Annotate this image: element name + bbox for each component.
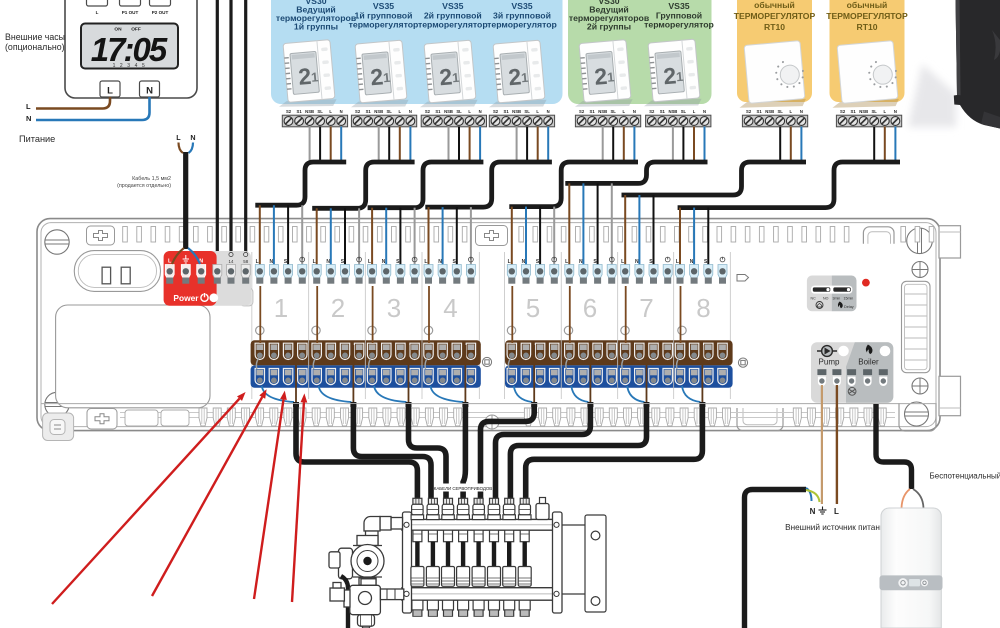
zone 7 output wiring: [626, 286, 647, 407]
manifold mount bracket right: [585, 515, 606, 612]
screw right lower: [912, 378, 928, 394]
servo cable zone 6: [496, 404, 591, 499]
svg-text:VS35: VS35: [373, 1, 394, 11]
zone 3 output wiring: [373, 286, 409, 407]
svg-text:L: L: [508, 259, 511, 265]
bus wire 3: [244, 0, 247, 269]
svg-text:S1: S1: [660, 109, 666, 114]
svg-text:NSB: NSB: [512, 109, 521, 114]
svg-text:NO: NO: [823, 297, 829, 301]
svg-text:S1: S1: [757, 109, 763, 114]
svg-text:Pump: Pump: [819, 358, 840, 367]
air vent: [536, 504, 549, 520]
manifold supply elbow: [364, 517, 403, 546]
thermostat terminal block 4: [489, 109, 554, 127]
bottom-right bracket: [899, 403, 936, 431]
actuator 6 and valve column: [488, 498, 501, 616]
thermostat terminal block 3: [421, 109, 486, 127]
svg-text:P1 OUT: P1 OUT: [122, 10, 139, 15]
zone numbers 1-8: [274, 293, 711, 323]
svg-text:N: N: [579, 259, 583, 265]
zone 5 thermostat wires: [512, 207, 554, 271]
svg-text:1: 1: [310, 69, 319, 85]
cable sheath cascade 7: [622, 162, 807, 195]
svg-text:L: L: [834, 507, 839, 516]
svg-text:NSB: NSB: [305, 109, 314, 114]
actuator 5 and valve column: [472, 498, 485, 616]
zone separator lines: [252, 252, 731, 399]
separator hairlines over strips: [309, 340, 674, 388]
thermostat VS device #5: [570, 39, 634, 110]
power cable tails: [172, 248, 184, 264]
thermostat terminal block 8: [836, 109, 901, 127]
svg-text:N: N: [703, 109, 706, 114]
svg-text:2й группы: 2й группы: [587, 22, 631, 32]
servo cable zone 2: [353, 404, 431, 499]
servo cable zone 3: [409, 404, 447, 499]
svg-text:L: L: [313, 259, 316, 265]
svg-text:N: N: [479, 109, 482, 114]
svg-text:1: 1: [274, 293, 288, 323]
thermostat cable wires block 8: [874, 127, 895, 163]
bottom-left wall tab: [43, 413, 74, 441]
svg-text:5: 5: [526, 293, 540, 323]
thermostat cable wires block 5: [603, 127, 635, 163]
DIP switch panel: [807, 276, 857, 312]
svg-text:2: 2: [331, 293, 345, 323]
svg-text:L: L: [96, 10, 99, 15]
zone 2 upper terminals: [312, 257, 363, 284]
actuator 1 and valve column: [411, 498, 424, 616]
svg-text:7: 7: [639, 293, 653, 323]
actuator 8 and valve column: [518, 498, 531, 616]
svg-text:1й группы: 1й группы: [294, 22, 338, 32]
svg-text:L: L: [329, 109, 332, 114]
svg-text:NSB: NSB: [859, 109, 868, 114]
manifold left end plate: [403, 512, 412, 613]
servo cable stub zone 6: [587, 402, 593, 407]
svg-text:NSB: NSB: [374, 109, 383, 114]
gray aux terminal block: [200, 251, 251, 306]
svg-text:L: L: [256, 259, 259, 265]
zone 7 upper terminals: [621, 257, 673, 284]
svg-text:ТЕРМОРЕГУЛЯТОР: ТЕРМОРЕГУЛЯТОР: [734, 11, 816, 21]
manifold supply bar: [402, 519, 560, 530]
red arrow 1: [52, 399, 240, 604]
svg-text:N: N: [409, 109, 412, 114]
corner screw top-left: [45, 230, 69, 254]
servo cable zone 8: [526, 404, 703, 499]
svg-text:S2: S2: [840, 109, 846, 114]
svg-text:1: 1: [451, 70, 460, 86]
svg-text:S2: S2: [649, 109, 655, 114]
svg-text:S1: S1: [366, 109, 372, 114]
svg-text:VS35: VS35: [442, 1, 463, 11]
zone 2 thermostat wires: [317, 208, 359, 271]
svg-text:L: L: [368, 259, 371, 265]
svg-text:N: N: [269, 259, 273, 265]
lock icon right of strip 2: [738, 358, 747, 367]
cable sheath cascade 4: [425, 162, 552, 207]
corner screw bottom-left: [45, 392, 69, 416]
zone 3 thermostat wires: [372, 208, 415, 271]
zone 2 output wiring: [317, 286, 353, 407]
svg-text:L: L: [884, 109, 887, 114]
clock LCD: [81, 24, 178, 69]
tag icon right of zone 8: [737, 275, 749, 282]
svg-text:S1: S1: [504, 109, 510, 114]
svg-text:S2: S2: [493, 109, 499, 114]
thermostat VS device #3: [415, 40, 479, 111]
power cable stub N blue: [189, 143, 194, 154]
manifold return bar: [402, 588, 560, 601]
svg-text:SL: SL: [778, 109, 784, 114]
svg-text:L: L: [621, 259, 624, 265]
svg-text:6: 6: [583, 293, 597, 323]
svg-text:L: L: [623, 109, 626, 114]
controller outer case: [37, 219, 940, 431]
thermostat terminal block 1: [282, 109, 347, 127]
screw right upper: [912, 262, 928, 278]
actuator terminal strip blue x=505: [505, 365, 733, 387]
servo cable stub zone 1: [293, 402, 299, 407]
svg-text:S1: S1: [297, 109, 303, 114]
svg-text:Внешние часы: Внешние часы: [5, 32, 65, 42]
thermostat VS device #2: [346, 40, 410, 111]
servo cable stub zone 4: [462, 402, 468, 407]
svg-text:Delay: Delay: [844, 305, 854, 309]
svg-text:SL: SL: [317, 109, 323, 114]
actuator terminal strip brown x=505: [505, 340, 733, 365]
zone 1 thermostat wires: [260, 205, 302, 271]
handle bracket top-right: [863, 227, 894, 244]
svg-text:4: 4: [443, 293, 457, 323]
actuator terminal strip blue x=250: [251, 365, 481, 387]
svg-text:NSB: NSB: [598, 109, 607, 114]
svg-text:L: L: [107, 86, 113, 97]
svg-text:N: N: [26, 114, 31, 123]
svg-text:Power: Power: [173, 293, 199, 303]
zone 6 thermostat wires: [569, 183, 612, 271]
clock terminal L: [100, 81, 120, 97]
svg-text:S1: S1: [435, 109, 441, 114]
zone 8 thermostat wires: [680, 208, 708, 271]
servo cable zone 7: [510, 404, 646, 499]
manifold right end plate: [553, 512, 563, 613]
svg-text:N: N: [438, 259, 442, 265]
mount bracket top-center: [476, 226, 508, 246]
svg-text:(опционально): (опционально): [5, 42, 65, 52]
servo cable stub zone 3: [406, 402, 412, 407]
svg-text:VS35: VS35: [511, 1, 532, 11]
vent slot: [74, 251, 160, 292]
thermostat VS device #6: [639, 39, 703, 110]
svg-text:N: N: [146, 86, 153, 97]
svg-text:SL: SL: [524, 109, 530, 114]
external power cable: [745, 490, 807, 628]
svg-text:S2: S2: [579, 109, 585, 114]
actuator terminal strip brown x=250: [251, 340, 481, 365]
svg-text:терморегулятор: терморегулятор: [418, 20, 488, 30]
pump wire 1 tan: [821, 385, 823, 504]
zone 6 upper terminals: [565, 257, 616, 284]
svg-text:N: N: [810, 507, 816, 516]
svg-text:1 2 3 4 5: 1 2 3 4 5: [113, 63, 147, 69]
svg-text:N: N: [190, 133, 195, 142]
svg-text:P2 OUT: P2 OUT: [152, 10, 169, 15]
thermostat VS device #4: [484, 40, 548, 111]
svg-text:3min: 3min: [833, 297, 841, 301]
bus wire 2: [229, 0, 232, 269]
svg-text:N: N: [633, 109, 636, 114]
power terminals L PE N: [165, 265, 174, 279]
svg-text:SL: SL: [456, 109, 462, 114]
top rail notches: [123, 227, 934, 243]
thermostat terminal block 2: [351, 109, 416, 127]
cable sheath cascade 3: [368, 162, 484, 208]
svg-text:терморегулятор: терморегулятор: [644, 20, 714, 30]
actuator 2 and valve column: [426, 498, 439, 616]
svg-text:Кабель 1,5 мм2: Кабель 1,5 мм2: [132, 176, 171, 182]
svg-text:NSB: NSB: [765, 109, 774, 114]
thermostat RT10 device #1: [734, 41, 807, 112]
svg-text:58: 58: [243, 259, 248, 264]
thermostat cable wires block 7: [780, 127, 801, 163]
zone 4 thermostat wires: [429, 207, 471, 271]
green thermostat panel: [568, 0, 712, 104]
zone 1 output wiring: [260, 286, 296, 407]
svg-text:L: L: [399, 109, 402, 114]
svg-text:SL: SL: [681, 109, 687, 114]
svg-text:терморегулятор: терморегулятор: [487, 20, 557, 30]
svg-text:1: 1: [675, 69, 684, 85]
svg-text:1: 1: [520, 70, 529, 86]
thermostat VS device #1: [274, 39, 338, 110]
label servo cables: [436, 484, 490, 492]
thermostat terminal block 5: [575, 109, 640, 127]
svg-text:SL: SL: [387, 109, 393, 114]
red arrow 2: [152, 397, 262, 596]
power cable sheath: [183, 152, 188, 249]
svg-text:N: N: [547, 109, 550, 114]
svg-text:L: L: [790, 109, 793, 114]
svg-text:Беспотенциальный контакт: Беспотенциальный контакт: [930, 472, 1000, 481]
svg-text:S1: S1: [851, 109, 857, 114]
svg-text:15min: 15min: [844, 297, 854, 301]
svg-text:SL: SL: [872, 109, 878, 114]
zone 4 upper terminals: [424, 257, 475, 284]
svg-text:14: 14: [229, 259, 234, 264]
svg-text:обычный: обычный: [754, 0, 795, 10]
thermostat cable wires block 3: [449, 127, 481, 163]
red arrow 4: [292, 402, 304, 602]
svg-text:1: 1: [382, 70, 391, 86]
svg-text:N: N: [326, 259, 330, 265]
svg-text:RT10: RT10: [764, 22, 785, 32]
svg-text:N: N: [690, 259, 694, 265]
svg-text:S2: S2: [425, 109, 431, 114]
svg-text:1: 1: [606, 69, 615, 85]
svg-text:N: N: [894, 109, 897, 114]
svg-text:Питание: Питание: [19, 134, 55, 144]
svg-text:N: N: [340, 109, 343, 114]
zone 3 upper terminals: [368, 257, 420, 284]
svg-text:S2: S2: [746, 109, 752, 114]
wire PE green-yellow stub: [806, 490, 820, 502]
svg-text:L: L: [26, 102, 31, 111]
thermostat cable wires block 1: [310, 127, 342, 163]
svg-text:терморегулятор: терморегулятор: [349, 20, 419, 30]
corner screw bottom-right: [905, 402, 929, 426]
wire N blue stub: [806, 488, 812, 501]
boiler wire gray: [913, 489, 924, 508]
svg-text:SL: SL: [611, 109, 617, 114]
thermostat RT10 device #2: [827, 41, 900, 112]
svg-text:N: N: [522, 259, 526, 265]
circulation pump: [329, 536, 384, 586]
small gray tab left of zone 1: [240, 288, 253, 306]
blue thermostat panel: [271, 0, 563, 104]
svg-text:NSB: NSB: [668, 109, 677, 114]
left inner panel: [56, 305, 210, 408]
svg-text:L: L: [424, 259, 427, 265]
servo cable stub zone 8: [699, 402, 705, 407]
zone 5 output wiring: [512, 286, 534, 407]
external clock unit: [65, 0, 197, 98]
bottom center bracket screw: [485, 415, 499, 429]
svg-text:NC: NC: [811, 297, 817, 301]
svg-text:КАБЕЛИ СЕРВОПРИВОДОВ: КАБЕЛИ СЕРВОПРИВОДОВ: [434, 486, 493, 491]
red arrow 3: [254, 400, 284, 600]
thermostat terminal block 7: [742, 109, 807, 127]
servo cable zone 1: [296, 404, 417, 499]
actuator 7 and valve column: [503, 498, 516, 616]
mixing valve assembly: [330, 579, 404, 628]
orange thermostat panel RT10 #2: [830, 0, 905, 102]
svg-text:Внешний источник питания: Внешний источник питания: [785, 523, 889, 532]
boiler cable: [876, 404, 912, 489]
svg-text:3: 3: [387, 293, 401, 323]
pump icon: [817, 350, 837, 352]
thermostat cable wires block 6: [673, 127, 705, 163]
svg-text:(продается отдельно): (продается отдельно): [117, 183, 171, 189]
clock terminal N: [140, 81, 160, 97]
actuator 4 and valve column: [457, 498, 470, 616]
mount bracket bottom-left: [87, 409, 117, 430]
svg-text:RT10: RT10: [856, 22, 877, 32]
orange thermostat panel RT10 #1: [737, 0, 812, 102]
clock wire L brown: [36, 97, 110, 109]
svg-text:L: L: [176, 133, 181, 142]
servo cable stub zone 5: [531, 402, 537, 407]
svg-text:S2: S2: [286, 109, 292, 114]
power cable stub L brown: [179, 143, 184, 154]
pump-boiler panel: [811, 342, 893, 402]
pump power cord: [341, 576, 348, 628]
zone 8 upper terminals: [676, 257, 728, 284]
svg-text:L: L: [676, 259, 679, 265]
svg-text:L: L: [693, 109, 696, 114]
svg-text:ТЕРМОРЕГУЛЯТОР: ТЕРМОРЕГУЛЯТОР: [826, 11, 908, 21]
thermostat terminal block 6: [646, 109, 711, 127]
thermostat cable wires block 2: [379, 127, 411, 163]
zone 5 upper terminals: [507, 257, 559, 284]
DIN clip bottom right: [939, 376, 961, 415]
pump wire 2 brown: [836, 385, 838, 504]
aux terminals: [213, 265, 222, 279]
cable sheath cascade 8: [678, 162, 900, 208]
clock wire N blue: [36, 97, 150, 120]
mount bracket top-left: [87, 226, 115, 245]
cable sheath cascade 5: [509, 162, 638, 207]
svg-text:S2: S2: [355, 109, 361, 114]
zone 6 output wiring: [570, 286, 591, 407]
corner screw top-right: [907, 228, 933, 254]
svg-text:L: L: [536, 109, 539, 114]
svg-text:L: L: [468, 109, 471, 114]
power block red: [164, 251, 217, 306]
servo cable stub zone 2: [350, 402, 356, 407]
flame icon: [866, 345, 873, 355]
actuator 3 and valve column: [442, 498, 455, 616]
black device photo: [954, 0, 1000, 129]
cable sheath cascade 2: [312, 162, 414, 208]
lock icon right of strip 1: [482, 357, 491, 366]
svg-text:N: N: [800, 109, 803, 114]
zone 1 upper terminals: [255, 257, 307, 284]
boiler unit: [880, 508, 943, 628]
servo cable zone 5: [481, 404, 535, 499]
zone pilot holes: [256, 326, 687, 334]
servo cable zone 4: [463, 404, 465, 499]
svg-text:L: L: [565, 259, 568, 265]
boiler wire orange: [902, 489, 911, 508]
svg-text:NSB: NSB: [444, 109, 453, 114]
svg-text:S1: S1: [590, 109, 596, 114]
cable sheath cascade 6: [565, 162, 707, 183]
svg-text:обычный: обычный: [847, 0, 888, 10]
svg-text:8: 8: [696, 293, 710, 323]
red LED: [862, 279, 870, 287]
bus wire 1: [216, 0, 219, 269]
manifold bar detail circles: [404, 522, 559, 596]
svg-text:N: N: [635, 259, 639, 265]
zone 4 output wiring: [429, 286, 465, 407]
thermostat cable wires block 4: [517, 127, 549, 163]
zone 8 output wiring: [681, 286, 703, 407]
handle bracket bottom-center: [737, 408, 783, 431]
servo cable stub zone 7: [644, 402, 650, 407]
cable sheath cascade 1: [255, 162, 346, 205]
zone 7 thermostat wires: [625, 195, 653, 271]
DIN clip top right: [939, 226, 961, 258]
svg-text:N: N: [382, 259, 386, 265]
svg-text:VS35: VS35: [668, 1, 689, 11]
bottom rail clamps: [41, 403, 936, 405]
right slot panel: [902, 281, 931, 372]
svg-text:Boiler: Boiler: [858, 358, 879, 367]
